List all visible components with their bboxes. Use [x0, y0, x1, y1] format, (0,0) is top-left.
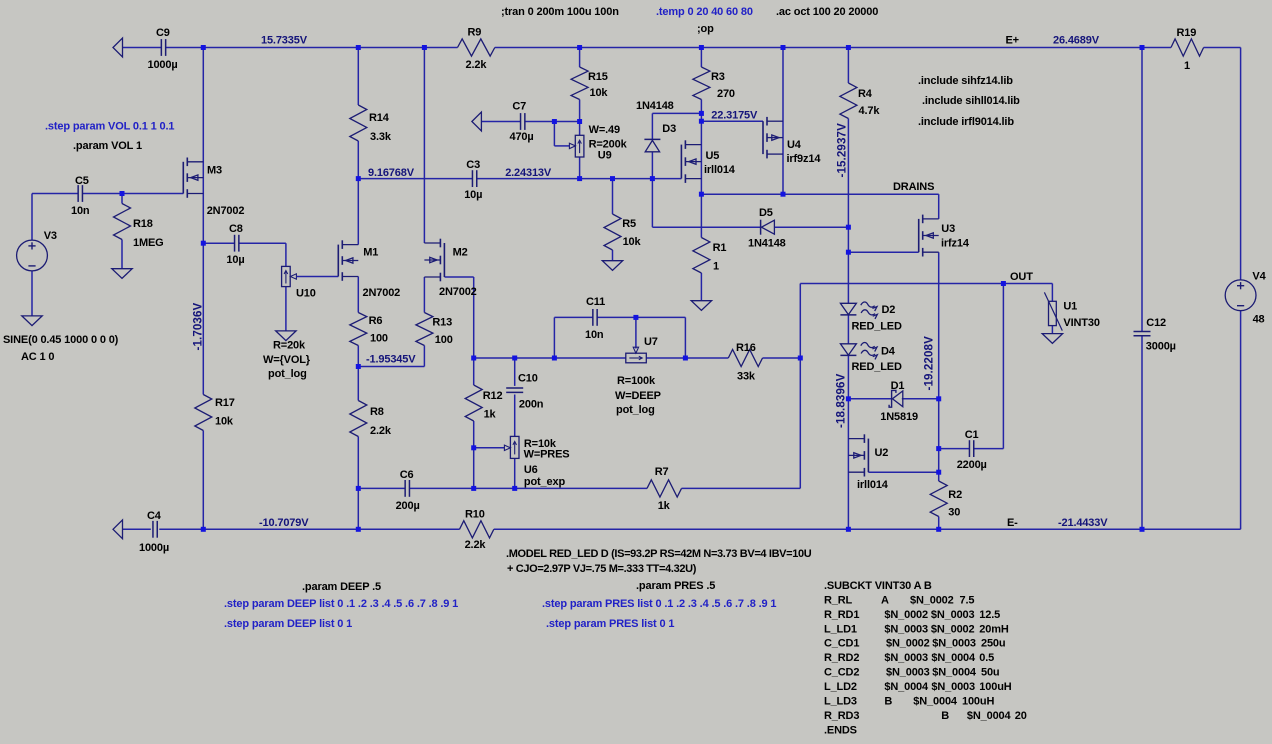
svg-text:.temp 0 20 40 60 80: .temp 0 20 40 60 80 — [656, 6, 753, 18]
svg-text:20: 20 — [1015, 710, 1027, 722]
svg-text:C8: C8 — [229, 223, 243, 235]
svg-text:$N_0002: $N_0002 — [910, 594, 954, 606]
wire U4 column — [782, 48, 784, 195]
ground under V3 — [22, 316, 42, 326]
svg-text:W=DEEP: W=DEEP — [615, 390, 661, 402]
svg-text:100: 100 — [370, 333, 388, 345]
junction — [356, 45, 361, 50]
resistor R4 — [840, 83, 857, 119]
svg-text:pot_exp: pot_exp — [524, 476, 566, 488]
wire C1 line and riser to OUT — [939, 284, 1004, 449]
svg-text:VINT30: VINT30 — [1063, 317, 1099, 329]
junction — [650, 176, 655, 181]
svg-text:R1: R1 — [713, 242, 727, 254]
junction — [512, 356, 517, 361]
svg-text:10n: 10n — [585, 329, 604, 341]
svg-text:.param DEEP .5: .param DEEP .5 — [302, 581, 381, 593]
svg-text:U9: U9 — [598, 150, 612, 162]
junction — [936, 470, 941, 475]
junction — [781, 192, 786, 197]
wire M2/R13 column — [358, 48, 424, 367]
capacitor C8 — [235, 235, 239, 252]
junction — [512, 486, 517, 491]
svg-text:-1.95345V: -1.95345V — [366, 354, 416, 366]
svg-text:200µ: 200µ — [396, 500, 420, 512]
svg-text:-18.8396V: -18.8396V — [834, 373, 847, 428]
svg-text:R4: R4 — [858, 88, 873, 100]
svg-text:W=PRES: W=PRES — [524, 449, 570, 461]
wire R12 column — [473, 358, 475, 488]
svg-text:33k: 33k — [737, 371, 756, 383]
svg-text:A: A — [881, 594, 889, 606]
svg-text:10k: 10k — [590, 87, 609, 99]
svg-text:3.3k: 3.3k — [370, 131, 392, 143]
svg-text:AC 1 0: AC 1 0 — [21, 351, 54, 363]
svg-text:B: B — [884, 695, 892, 707]
svg-text:U1: U1 — [1063, 301, 1077, 313]
capacitor C3 — [472, 170, 476, 187]
svg-text:.step param PRES list 0 1: .step param PRES list 0 1 — [546, 618, 674, 630]
svg-text:$N_0003: $N_0003 — [931, 609, 975, 621]
svg-text:C_CD2: C_CD2 — [824, 667, 859, 679]
svg-text:E-: E- — [1007, 517, 1018, 529]
rotated voltage label -15.2937V — [836, 123, 849, 178]
svg-text:L_LD1: L_LD1 — [824, 623, 857, 635]
LED D4 — [840, 343, 877, 360]
junction — [846, 396, 851, 401]
junction — [846, 527, 851, 532]
wire U7 wiper — [633, 317, 638, 353]
svg-text:2.2k: 2.2k — [466, 59, 488, 71]
wire V3 branch and C5 input line — [32, 194, 183, 316]
svg-text:$N_0004: $N_0004 — [931, 652, 976, 664]
svg-text:.step param DEEP list 0 .1 .2: .step param DEEP list 0 .1 .2 .3 .4 .5 .… — [224, 598, 458, 610]
svg-text:;op: ;op — [697, 23, 714, 35]
capacitor C12 — [1134, 331, 1151, 335]
resistor R18 — [114, 204, 131, 240]
junction — [356, 486, 361, 491]
wire C10/U6 column — [514, 358, 516, 488]
svg-text:L_LD2: L_LD2 — [824, 681, 857, 693]
svg-text:.param PRES .5: .param PRES .5 — [636, 580, 715, 592]
svg-text:R_RL: R_RL — [824, 594, 853, 606]
wire M3/R17 column — [202, 48, 204, 530]
svg-text:$N_0003: $N_0003 — [884, 623, 928, 635]
svg-text:$N_0004: $N_0004 — [913, 695, 958, 707]
svg-text:1N4148: 1N4148 — [748, 238, 786, 250]
svg-text:R3: R3 — [711, 71, 725, 83]
svg-text:R=200k: R=200k — [589, 138, 628, 150]
svg-text:C5: C5 — [75, 175, 89, 187]
svg-text:$N_0003: $N_0003 — [931, 681, 975, 693]
svg-text:C7: C7 — [512, 101, 526, 113]
rotated voltage label -18.8396V — [834, 373, 847, 428]
svg-text:.step param DEEP list 0 1: .step param DEEP list 0 1 — [224, 618, 352, 630]
wire R14/M1/R6/R8 column — [357, 48, 359, 530]
junction — [356, 527, 361, 532]
capacitor C9 — [161, 39, 165, 56]
svg-text:1MEG: 1MEG — [133, 237, 164, 249]
svg-text:R12: R12 — [483, 390, 503, 402]
svg-text:R19: R19 — [1177, 27, 1197, 39]
junction — [846, 45, 851, 50]
svg-text:0.5: 0.5 — [979, 652, 994, 664]
svg-text:26.4689V: 26.4689V — [1053, 35, 1100, 47]
svg-text:2.24313V: 2.24313V — [505, 167, 552, 179]
port arrow C7 side — [472, 112, 482, 131]
resistor R19 — [1171, 39, 1204, 56]
svg-text:;tran 0 200m 100u 100n: ;tran 0 200m 100u 100n — [501, 6, 619, 18]
transistor M3 — [183, 158, 203, 198]
svg-text:M2: M2 — [453, 247, 468, 259]
svg-text:470µ: 470µ — [510, 131, 534, 143]
junction — [201, 241, 206, 246]
svg-text:.ac oct 100 20 20000: .ac oct 100 20 20000 — [776, 6, 878, 18]
resistor R5 — [604, 214, 621, 250]
wire V4 to bottom rail — [1240, 311, 1242, 530]
svg-text:12.5: 12.5 — [979, 609, 1000, 621]
capacitor C6 — [405, 480, 409, 497]
svg-text:+ CJO=2.97P VJ=.75 M=.333 TT=4: + CJO=2.97P VJ=.75 M=.333 TT=4.32U) — [507, 563, 697, 575]
svg-text:RED_LED: RED_LED — [852, 361, 902, 373]
junction — [1140, 527, 1145, 532]
svg-text:irll014: irll014 — [704, 164, 736, 176]
wire R18 leads — [121, 194, 123, 269]
resistor R10 — [460, 521, 494, 538]
svg-text:$N_0002: $N_0002 — [886, 638, 930, 650]
junction — [356, 176, 361, 181]
svg-text:.step param VOL 0.1 1 0.1: .step param VOL 0.1 1 0.1 — [45, 121, 174, 133]
svg-text:9.16768V: 9.16768V — [368, 167, 415, 179]
junction — [699, 111, 704, 116]
svg-text:C9: C9 — [156, 27, 170, 39]
wire C8 line — [203, 243, 286, 266]
port arrow C4 side — [113, 520, 123, 539]
svg-text:R_RD1: R_RD1 — [824, 609, 859, 621]
svg-text:$N_0004: $N_0004 — [967, 710, 1012, 722]
wire U6 wiper — [474, 445, 511, 450]
svg-text:R15: R15 — [588, 71, 608, 83]
thermistor U1 — [1044, 292, 1062, 330]
svg-text:48: 48 — [1253, 314, 1265, 326]
junction — [471, 356, 476, 361]
svg-text:10µ: 10µ — [226, 254, 244, 266]
svg-text:W=.49: W=.49 — [589, 124, 620, 136]
diode D1 — [889, 390, 903, 407]
svg-text:B: B — [941, 710, 949, 722]
svg-text:1000µ: 1000µ — [148, 59, 178, 71]
svg-text:C1: C1 — [965, 429, 979, 441]
svg-text:OUT: OUT — [1010, 271, 1033, 283]
svg-text:.param VOL 1: .param VOL 1 — [73, 140, 142, 152]
svg-text:2200µ: 2200µ — [957, 459, 987, 471]
svg-text:C10: C10 — [518, 373, 538, 385]
transistor U3 — [919, 215, 939, 257]
junction — [1140, 45, 1145, 50]
resistor R3 — [693, 67, 710, 100]
svg-text:4.7k: 4.7k — [859, 105, 881, 117]
transistor U2 — [848, 434, 868, 476]
svg-text:D2: D2 — [882, 304, 896, 316]
resistor R17 — [195, 395, 212, 431]
wire C12 column — [1141, 48, 1143, 530]
resistor R16 — [728, 349, 762, 366]
svg-text:10n: 10n — [71, 205, 90, 217]
svg-text:$N_0003: $N_0003 — [886, 667, 930, 679]
junction — [552, 119, 557, 124]
resistor R6 — [350, 313, 367, 346]
svg-text:.step param PRES list 0 .1 .2: .step param PRES list 0 .1 .2 .3 .4 .5 .… — [542, 598, 776, 610]
junction — [633, 315, 638, 320]
wire C7 line — [482, 121, 580, 123]
wire D3 column and D5 line — [652, 113, 848, 227]
junction — [683, 356, 688, 361]
svg-text:10k: 10k — [215, 416, 234, 428]
svg-text:1N4148: 1N4148 — [636, 100, 674, 112]
junction — [846, 250, 851, 255]
svg-text:D5: D5 — [759, 207, 773, 219]
wire U2 column — [847, 399, 849, 530]
wire node 22.3175V links — [652, 113, 763, 121]
svg-text:R2: R2 — [948, 489, 962, 501]
junction — [471, 486, 476, 491]
wire mid tone-stack rail — [474, 357, 801, 359]
wire U9 wiper — [554, 122, 575, 149]
LED D2 — [840, 302, 877, 319]
svg-text:250u: 250u — [981, 638, 1005, 650]
svg-text:1: 1 — [713, 261, 719, 273]
svg-text:2.2k: 2.2k — [370, 425, 392, 437]
svg-text:1: 1 — [1184, 60, 1190, 72]
svg-text:200n: 200n — [519, 399, 544, 411]
svg-text:W={VOL}: W={VOL} — [263, 354, 311, 366]
svg-text:R7: R7 — [655, 466, 669, 478]
voltage source V3 — [17, 240, 48, 271]
svg-text:C6: C6 — [400, 469, 414, 481]
svg-text:irf9z14: irf9z14 — [787, 153, 822, 165]
resistor R1 — [693, 238, 710, 274]
junction — [699, 119, 704, 124]
svg-text:20mH: 20mH — [979, 623, 1009, 635]
junction — [471, 445, 476, 450]
svg-text:2N7002: 2N7002 — [439, 286, 477, 298]
svg-text:R14: R14 — [369, 112, 390, 124]
svg-text:22.3175V: 22.3175V — [711, 110, 758, 122]
svg-text:V4: V4 — [1252, 271, 1266, 283]
svg-text:R_RD3: R_RD3 — [824, 710, 859, 722]
svg-text:M1: M1 — [363, 247, 378, 259]
svg-text:U4: U4 — [787, 139, 802, 151]
ground under R1 — [691, 301, 711, 311]
svg-text:50u: 50u — [981, 667, 1000, 679]
junction — [201, 527, 206, 532]
svg-text:.ENDS: .ENDS — [824, 724, 857, 736]
resistor R12 — [465, 385, 482, 421]
svg-text:R16: R16 — [736, 342, 756, 354]
svg-text:30: 30 — [948, 507, 960, 519]
svg-text:100uH: 100uH — [979, 681, 1011, 693]
svg-text:R9: R9 — [468, 27, 482, 39]
svg-text:-19.2208V: -19.2208V — [922, 336, 935, 391]
junction — [1001, 281, 1006, 286]
svg-text:pot_log: pot_log — [268, 368, 307, 380]
svg-text:SINE(0 0.45 1000 0 0 0): SINE(0 0.45 1000 0 0 0) — [3, 334, 119, 346]
wire D1 line — [848, 398, 938, 400]
svg-text:$N_0002: $N_0002 — [884, 609, 928, 621]
resistor R8 — [350, 401, 367, 437]
svg-text:D1: D1 — [891, 380, 905, 392]
junction — [699, 192, 704, 197]
ground under R5 — [602, 261, 622, 271]
svg-text:100: 100 — [435, 334, 453, 346]
resistor R9 — [458, 39, 495, 56]
wire bottom supply rail E- — [123, 528, 1241, 530]
wire bottom mid rail C6 to R7 to OUT riser — [358, 284, 800, 489]
svg-text:C4: C4 — [147, 510, 162, 522]
svg-text:-21.4433V: -21.4433V — [1058, 517, 1108, 529]
transistor M1 — [338, 240, 358, 280]
svg-text:10µ: 10µ — [464, 189, 482, 201]
wire R15 column — [579, 48, 581, 122]
svg-text:R6: R6 — [369, 315, 383, 327]
svg-text:U3: U3 — [941, 223, 955, 235]
transistor U5 — [681, 140, 701, 183]
svg-text:C12: C12 — [1146, 317, 1166, 329]
svg-text:2.2k: 2.2k — [465, 539, 487, 551]
svg-text:2N7002: 2N7002 — [207, 205, 245, 217]
svg-text:C11: C11 — [586, 296, 605, 308]
wire U10 lower lead — [285, 287, 287, 331]
svg-text:R=20k: R=20k — [273, 340, 306, 352]
svg-text:10k: 10k — [623, 236, 642, 248]
wire DRAINS net — [701, 194, 938, 219]
diode D3 — [644, 139, 660, 151]
resistor R7 — [647, 480, 682, 497]
svg-text:-1.7036V: -1.7036V — [192, 302, 205, 350]
svg-text:R_RD2: R_RD2 — [824, 652, 859, 664]
transistor M2 — [424, 239, 444, 282]
wire R4 / LED column — [847, 48, 849, 399]
wire C11 bypass loop — [554, 317, 685, 358]
junction — [610, 176, 615, 181]
capacitor C7 — [521, 113, 525, 130]
svg-text:pot_log: pot_log — [616, 404, 655, 416]
resistor R13 — [416, 313, 433, 346]
svg-text:R13: R13 — [432, 317, 452, 329]
capacitor C10 — [506, 388, 523, 392]
resistor R14 — [350, 105, 367, 141]
svg-text:U2: U2 — [875, 447, 889, 459]
svg-text:M3: M3 — [207, 165, 222, 177]
svg-text:U6: U6 — [524, 464, 538, 476]
ground under U1 — [1042, 334, 1062, 344]
wire U1 lower lead — [1051, 326, 1053, 334]
junction — [552, 356, 557, 361]
capacitor C11 — [593, 309, 597, 326]
junction — [846, 225, 851, 230]
diode D5 — [761, 220, 775, 235]
junction — [936, 527, 941, 532]
junction — [577, 119, 582, 124]
svg-text:1k: 1k — [484, 409, 497, 421]
junction — [120, 191, 125, 196]
voltage source V4 — [1225, 280, 1256, 311]
svg-text:D3: D3 — [662, 123, 676, 135]
svg-text:.include sihfz14.lib: .include sihfz14.lib — [918, 75, 1013, 87]
ground under R18 — [112, 269, 132, 279]
svg-text:R=100k: R=100k — [617, 375, 656, 387]
junction — [798, 356, 803, 361]
wire OUT line — [800, 284, 1052, 302]
svg-text:1k: 1k — [658, 500, 671, 512]
junction — [936, 396, 941, 401]
svg-text:-15.2937V: -15.2937V — [836, 123, 849, 178]
junction — [781, 45, 786, 50]
rotated voltage label -1.7036V — [192, 302, 205, 350]
resistor R2 — [930, 481, 947, 517]
svg-text:E+: E+ — [1006, 35, 1019, 47]
svg-text:2N7002: 2N7002 — [363, 287, 401, 299]
wire U3 source / D1 / C1 / R2 column — [938, 252, 940, 529]
svg-text:-10.7079V: -10.7079V — [259, 517, 309, 529]
subcircuit netlist VINT30 — [824, 580, 1027, 736]
svg-text:U7: U7 — [644, 336, 658, 348]
junction — [577, 176, 582, 181]
svg-text:3000µ: 3000µ — [1146, 341, 1176, 353]
rotated voltage label -19.2208V — [922, 336, 935, 391]
svg-text:$N_0003: $N_0003 — [932, 638, 976, 650]
capacitor C1 — [969, 440, 973, 457]
junction — [201, 45, 206, 50]
wire U9 column — [579, 122, 581, 179]
junction — [356, 364, 361, 369]
svg-text:.include irfl9014.lib: .include irfl9014.lib — [918, 116, 1014, 128]
svg-text:7.5: 7.5 — [960, 594, 975, 606]
wire U10 wiper to M1 gate — [290, 274, 338, 279]
svg-text:irfz14: irfz14 — [941, 238, 970, 250]
svg-text:C_CD1: C_CD1 — [824, 638, 859, 650]
svg-text:R17: R17 — [215, 397, 235, 409]
wire U3 gate lead — [848, 251, 918, 253]
svg-text:R5: R5 — [622, 218, 636, 230]
svg-text:R8: R8 — [370, 406, 384, 418]
port arrow input top — [113, 38, 123, 57]
svg-text:RED_LED: RED_LED — [852, 321, 902, 333]
svg-text:U5: U5 — [706, 150, 720, 162]
capacitor C5 — [78, 185, 82, 202]
potentiometer U6 — [510, 436, 519, 458]
ground under U10 — [276, 331, 296, 341]
svg-text:R18: R18 — [133, 218, 153, 230]
svg-text:.MODEL RED_LED D (IS=93.2P RS=: .MODEL RED_LED D (IS=93.2P RS=42M N=3.73… — [506, 548, 812, 560]
svg-text:irll014: irll014 — [857, 479, 889, 491]
svg-text:270: 270 — [717, 88, 735, 100]
junction — [699, 45, 704, 50]
wire M2 gate to mid rail — [445, 277, 474, 358]
svg-text:$N_0004: $N_0004 — [932, 667, 977, 679]
svg-text:$N_0003: $N_0003 — [884, 652, 928, 664]
svg-text:V3: V3 — [44, 230, 57, 242]
junction — [577, 45, 582, 50]
svg-text:15.7335V: 15.7335V — [261, 35, 308, 47]
wire R3/U5/R1 column — [700, 48, 702, 301]
svg-text:DRAINS: DRAINS — [893, 181, 934, 193]
svg-text:.include sihll014.lib: .include sihll014.lib — [922, 95, 1020, 107]
svg-text:.SUBCKT VINT30 A B: .SUBCKT VINT30 A B — [824, 580, 932, 592]
capacitor C4 — [153, 521, 157, 538]
resistor R15 — [571, 67, 588, 100]
wire U2 gate lead — [868, 471, 938, 473]
